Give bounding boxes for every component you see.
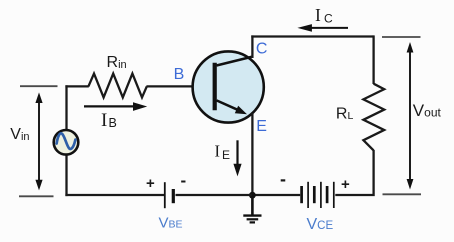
- svg-text:+: +: [341, 176, 350, 193]
- battery VBE: [165, 182, 174, 208]
- svg-text:I: I: [101, 110, 107, 131]
- battery VCE (3 cells): [302, 182, 334, 208]
- AC source V1 circle: [54, 130, 79, 155]
- wire left vertical upper (input corner down to AC source): [65, 85, 67, 130]
- transistor Q1 emitter line with arrow: [217, 100, 242, 111]
- current arrow IC: [310, 27, 348, 29]
- svg-text:C: C: [324, 12, 333, 26]
- svg-text:RL: RL: [336, 106, 354, 123]
- svg-text:Rin: Rin: [107, 54, 127, 71]
- svg-text:B: B: [109, 116, 117, 130]
- wire collector vertical: [251, 35, 253, 58]
- wire left vertical lower (AC source to bottom corner): [65, 155, 67, 196]
- transistor Q1 circle body: [193, 51, 264, 122]
- Vin measurement top tick: [20, 85, 58, 87]
- svg-text:E: E: [222, 148, 230, 162]
- Vout measurement bottom tick: [383, 193, 422, 195]
- Vout measurement top tick: [382, 36, 421, 38]
- transistor Q1 base bar: [213, 63, 217, 110]
- Vin measurement bottom tick: [19, 195, 54, 197]
- svg-text:VCE: VCE: [307, 216, 334, 233]
- current arrow IB: [84, 105, 136, 107]
- wire right vertical upper: [372, 35, 374, 84]
- svg-text:-: -: [181, 171, 187, 190]
- wire Rin to base: [146, 85, 217, 87]
- svg-text:B: B: [174, 66, 185, 83]
- svg-text:+: +: [146, 175, 155, 192]
- ground: [243, 195, 261, 222]
- current arrow IE: [236, 140, 238, 166]
- wire emitter vertical: [251, 113, 253, 196]
- Vout measurement arrow: [409, 48, 411, 184]
- wire junction to VBE: [176, 194, 253, 196]
- svg-text:VBE: VBE: [159, 215, 183, 232]
- wire input horizontal to Rin: [65, 85, 88, 87]
- Vin measurement arrow: [38, 99, 40, 184]
- wire VBE to left corner: [65, 194, 164, 196]
- svg-text:Vout: Vout: [413, 101, 442, 120]
- junction node dot: [249, 192, 256, 199]
- svg-text:E: E: [256, 118, 267, 135]
- svg-text:-: -: [280, 169, 286, 189]
- svg-text:I: I: [315, 5, 321, 25]
- wire VCE to emitter junction: [252, 194, 300, 196]
- svg-text:I: I: [215, 141, 221, 160]
- svg-text:C: C: [256, 41, 268, 58]
- wire right vertical lower with corner to VCE: [335, 150, 373, 195]
- transistor Q1 collector line: [217, 57, 253, 66]
- resistor R1 (Rin) zigzag: [88, 74, 146, 98]
- svg-text:Vin: Vin: [10, 126, 29, 143]
- AC source sine wave: [57, 133, 76, 149]
- wire top horizontal: [251, 35, 373, 37]
- resistor R2 (RL) zigzag: [363, 84, 384, 151]
